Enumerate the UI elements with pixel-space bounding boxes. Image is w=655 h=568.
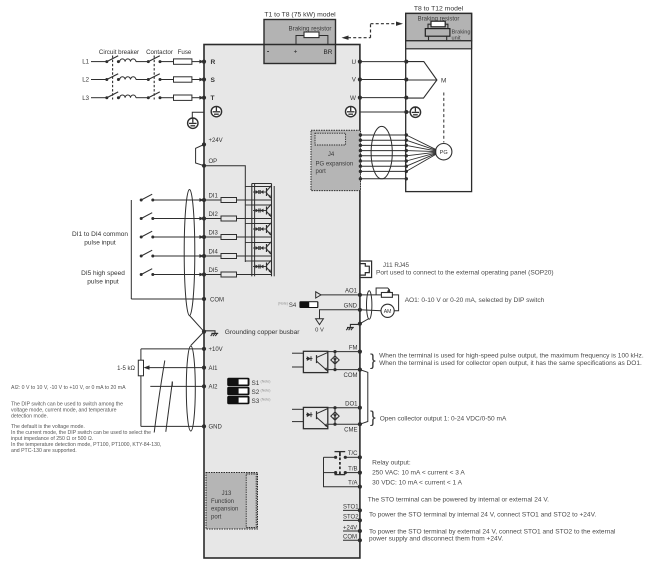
PG signal wire 5 [359, 154, 362, 157]
svg-text:R: R [211, 59, 216, 66]
wire fuse to terminal R [192, 61, 200, 63]
svg-text:port: port [211, 514, 222, 520]
svg-text:S4: S4 [289, 303, 297, 309]
twisted pair slash 1 [154, 361, 165, 433]
svg-text:Port used to connect to the ex: Port used to connect to the external ope… [376, 270, 554, 277]
svg-text:DI1 to DI4 common: DI1 to DI4 common [72, 231, 128, 238]
switch for DI5 [140, 273, 143, 276]
svg-text:The STO terminal can be powere: The STO terminal can be powered by inter… [368, 497, 549, 504]
svg-text:DI5: DI5 [209, 268, 219, 274]
terminal COM (STO) [343, 539, 360, 541]
wire V to motor [360, 79, 406, 81]
wire switch to terminal DI3 [153, 236, 200, 238]
AO shield drain to busbar [360, 319, 369, 324]
wire resistor to optocoupler DI3 [237, 236, 252, 238]
svg-text:Grounding copper busbar: Grounding copper busbar [225, 329, 301, 336]
wire coil to contactor L3 [136, 97, 148, 99]
svg-text:+10V: +10V [209, 347, 223, 353]
terminal DI2 [202, 216, 206, 220]
svg-text:(Note): (Note) [261, 389, 271, 393]
fuse L3 [174, 95, 192, 100]
svg-text:(Note): (Note) [261, 379, 271, 383]
twisted pair slash 2 [166, 382, 173, 432]
svg-text:Fuse: Fuse [178, 49, 192, 56]
inverter PE terminal (input side) [211, 106, 221, 116]
potentiometer 1-5 kOhm [140, 349, 142, 360]
svg-text:and PTC-130 are supported.: and PTC-130 are supported. [11, 448, 77, 454]
optocoupler output FM [303, 351, 327, 372]
braking resistor element [304, 32, 319, 38]
dashed connector arrow to T8-T12 module [371, 23, 397, 25]
relay contact T/C [345, 456, 360, 458]
svg-text:T: T [211, 95, 215, 102]
relay branch wires [324, 456, 336, 458]
svg-text:DI3: DI3 [209, 231, 219, 237]
svg-text:Function: Function [211, 499, 234, 505]
svg-text:COM: COM [343, 535, 357, 541]
PG signal wire 2 [359, 139, 362, 142]
svg-text:AO1: 0-10 V or 0-20 mA, select: AO1: 0-10 V or 0-20 mA, selected by DIP … [405, 297, 545, 304]
terminal S [202, 77, 206, 81]
svg-text:T/B: T/B [348, 466, 357, 472]
svg-text:DI4: DI4 [209, 250, 219, 256]
terminal DO1 [328, 407, 360, 409]
terminal CME [328, 423, 360, 425]
contactor pole L3 [147, 96, 150, 99]
encoder PG circle [436, 144, 452, 160]
connector J11 RJ45 [360, 261, 372, 278]
svg-text:AI2: 0 V to 10 V, -10 V to +10: AI2: 0 V to 10 V, -10 V to +10 V, or 0 m… [11, 385, 126, 391]
svg-text:S3: S3 [252, 398, 260, 405]
wire contactor to fuse L1 [160, 61, 174, 63]
terminal DI3 [202, 235, 206, 239]
encoder cable shield ellipse [371, 126, 392, 178]
terminal FM [328, 351, 360, 353]
DI common bus wire [130, 200, 132, 299]
svg-text:Relay output:: Relay output: [372, 459, 411, 466]
terminal strip band [406, 41, 472, 49]
contactor pole L1 [147, 60, 150, 63]
switch for DI4 [140, 255, 143, 258]
dashed connector vertical [370, 24, 372, 38]
reactor coil L3 [120, 95, 136, 98]
wire GND to ammeter [360, 310, 381, 311]
svg-text:(Note): (Note) [261, 398, 271, 402]
dashed connector arrow to T1-T8 braking resistor [348, 37, 371, 39]
svg-text:GND: GND [209, 425, 223, 431]
terminal DI4 [202, 254, 206, 258]
optocoupler DI3 [252, 223, 272, 225]
terminal R [202, 60, 206, 64]
PG signal wire 1 [359, 133, 362, 136]
external ammeter AM [381, 304, 394, 317]
svg-text:J4: J4 [328, 152, 335, 158]
svg-text:STO1: STO1 [343, 505, 359, 511]
relay common T/A [324, 457, 360, 486]
grounding copper busbar terminal [202, 330, 206, 334]
wire U to motor [360, 61, 406, 63]
DIP switch S2 [228, 387, 249, 394]
potentiometer wiper wire to AI1 [144, 365, 150, 369]
braking resistor wiring bracket [296, 36, 328, 45]
wire contactor to fuse L3 [160, 97, 174, 99]
wire buffer to AO1 [321, 294, 360, 296]
optocoupler DI2 [252, 204, 272, 206]
optocoupler DI5 [252, 260, 272, 262]
svg-text:DO1: DO1 [345, 401, 358, 407]
svg-text:OP: OP [209, 159, 218, 165]
terminal +10V [141, 348, 204, 350]
svg-text:AI2: AI2 [209, 385, 219, 391]
svg-text:STO2: STO2 [343, 515, 359, 521]
terminal AI1 [202, 366, 206, 370]
input resistor DI1 [204, 199, 221, 201]
svg-text:AO1: AO1 [345, 288, 358, 294]
svg-text:W: W [350, 95, 356, 102]
svg-text:1-5 kΩ: 1-5 kΩ [117, 366, 135, 372]
PG cable shield wire [359, 177, 362, 180]
svg-text:To power the STO terminal by e: To power the STO terminal by external 24… [369, 529, 616, 536]
grounding busbar terminal (right) [358, 322, 362, 326]
svg-text:S2: S2 [252, 389, 260, 396]
svg-text:}: } [370, 408, 376, 427]
wire coil to contactor L2 [136, 79, 148, 81]
svg-text:Circuit breaker: Circuit breaker [99, 49, 139, 56]
fuse L1 [174, 59, 192, 64]
braking resistor module box T1-T8 [264, 20, 336, 64]
svg-text:BR: BR [324, 49, 333, 56]
reactor coil L2 [120, 77, 136, 80]
reactor coil L1 [120, 59, 136, 62]
svg-text:T8 to T12 model: T8 to T12 model [414, 6, 464, 13]
contactor pole L2 [147, 78, 150, 81]
input resistor DI4 [204, 255, 221, 257]
input resistor DI3 [204, 236, 221, 238]
svg-text:T/C: T/C [348, 451, 358, 457]
optocoupler output DO1 [303, 407, 327, 428]
circuit breaker gang link [112, 56, 114, 100]
connector J13 function expansion port [206, 473, 258, 530]
wire fuse to terminal S [192, 79, 200, 81]
svg-text:PG: PG [440, 150, 448, 156]
jumper wire +24V to OP [196, 145, 204, 166]
braking unit box [428, 24, 431, 28]
svg-text:DI2: DI2 [209, 212, 219, 218]
optocoupler DI1 [252, 186, 272, 188]
connector J4 PG expansion port [311, 130, 361, 190]
svg-text:AI1: AI1 [209, 366, 219, 372]
svg-text:power supply and disconnect th: power supply and disconnect them from +2… [369, 536, 503, 543]
svg-text:To power the STO terminal by i: To power the STO terminal by internal 24… [369, 512, 596, 519]
svg-text:pulse input: pulse input [84, 240, 116, 247]
motor shaft dashed link [443, 93, 445, 143]
svg-text:J11 RJ45: J11 RJ45 [383, 262, 410, 269]
svg-text:J13: J13 [222, 491, 232, 497]
PG signal wire 6 [359, 159, 362, 162]
AO1 buffer amplifier [316, 292, 321, 298]
svg-text:U: U [351, 59, 356, 66]
svg-text:FM: FM [349, 345, 358, 351]
terminal STO2 (STO) [343, 519, 360, 521]
svg-text:250 VAC: 10 mA < current < 3 A: 250 VAC: 10 mA < current < 3 A [372, 470, 465, 477]
inverter main block [204, 45, 360, 559]
switch for DI3 [140, 236, 143, 239]
wire switch to terminal DI1 [153, 199, 200, 201]
wire resistor to optocoupler DI4 [237, 255, 252, 257]
terminal COM [328, 369, 360, 371]
terminal AI2 wire [150, 385, 204, 387]
DIP switch S3 [228, 396, 249, 403]
braking resistor element (T8-T12) [431, 21, 445, 27]
svg-text:When the terminal is used for: When the terminal is used for collector … [379, 360, 642, 367]
AO cable shield ellipse [367, 291, 372, 319]
svg-text:DI1: DI1 [209, 194, 219, 200]
terminal DI1 [202, 198, 206, 202]
optocoupler bank frame [251, 184, 253, 277]
DIP switch S1 [228, 378, 249, 385]
svg-text:30 VDC: 10 mA < current < 1 A: 30 VDC: 10 mA < current < 1 A [372, 479, 463, 486]
svg-text:S1: S1 [252, 380, 260, 387]
wire resistor to optocoupler DI2 [237, 218, 252, 220]
terminal DI5 [202, 272, 206, 276]
wire fuse to terminal T [192, 97, 200, 99]
0V reference triangle [316, 319, 324, 325]
circuit breaker pole L3 [105, 96, 108, 99]
PG signal wire 4 [359, 149, 362, 152]
svg-text:COM: COM [210, 297, 224, 303]
protection diode DO1 [334, 408, 336, 425]
wire resistor to optocoupler DI5 [237, 274, 252, 276]
switch for DI2 [140, 217, 143, 220]
PG signal wire 8 [359, 170, 362, 173]
svg-text:CME: CME [344, 428, 357, 434]
svg-text:DI5 high speed: DI5 high speed [81, 270, 125, 277]
svg-text:L3: L3 [82, 95, 89, 102]
svg-text:L1: L1 [82, 59, 89, 66]
AI cable shield ellipse [186, 346, 195, 431]
contactor gang link [153, 56, 155, 100]
optocoupler DI4 [252, 242, 272, 244]
svg-text:COM: COM [344, 373, 358, 379]
circuit breaker pole L1 [105, 60, 108, 63]
wire PE to motor frame ground [360, 111, 406, 113]
svg-text:T1 to T8 (75 kW) model: T1 to T8 (75 kW) model [264, 12, 336, 19]
external rheostat load on AO1 [360, 294, 382, 296]
svg-text:S: S [211, 77, 216, 84]
braking unit legs [428, 36, 430, 47]
svg-text:}: } [370, 351, 376, 370]
svg-text:When the terminal is used for: When the terminal is used for high-speed… [379, 352, 644, 359]
terminal T [202, 96, 206, 100]
svg-text:0 V: 0 V [315, 328, 324, 334]
svg-text:T/A: T/A [348, 480, 357, 486]
terminal +24V (STO) [343, 530, 360, 532]
wire to external ground [192, 112, 204, 118]
svg-text:expansion: expansion [211, 507, 238, 513]
input resistor DI5 [204, 274, 221, 276]
svg-text:+: + [294, 49, 298, 56]
wire W to motor [360, 97, 406, 99]
svg-text:Open collector output 1: 0-24: Open collector output 1: 0-24 VDC/0-50 m… [380, 415, 507, 422]
wire coil to contactor L1 [136, 61, 148, 63]
svg-text:+24V: +24V [343, 525, 357, 531]
internal GND wire and 0V [320, 310, 360, 319]
wire switch to terminal DI5 [153, 274, 200, 276]
circuit breaker pole L2 [105, 78, 108, 81]
terminal GND (analog) [141, 425, 204, 427]
wire COM to CME common link [360, 370, 368, 425]
motor frame ground symbol [410, 107, 420, 117]
input resistor DI2 [204, 218, 221, 220]
braking module box T8-T12 [406, 13, 472, 40]
svg-text:+24V: +24V [209, 138, 223, 144]
relay contact T/B [345, 472, 360, 474]
terminal COM [202, 297, 206, 301]
shield drain wires to busbar [190, 316, 205, 332]
protection diode FM [334, 352, 336, 370]
PG signal wire 7 [359, 165, 362, 168]
svg-text:L2: L2 [82, 77, 89, 84]
wire resistor to optocoupler DI1 [237, 199, 252, 201]
wire contactor to fuse L2 [160, 79, 174, 81]
svg-text:PG expansion: PG expansion [316, 162, 354, 168]
wire COM to bus [131, 298, 204, 300]
top edge of block over braking box [264, 44, 336, 46]
OP internal rail [204, 166, 245, 262]
svg-text:port: port [316, 169, 327, 175]
fuse L2 [174, 77, 192, 82]
relay armature [335, 451, 346, 453]
wire switch to terminal DI4 [153, 255, 200, 257]
external PE ground electrode [188, 118, 198, 128]
svg-text:detection mode.: detection mode. [11, 413, 48, 419]
switch for DI1 [140, 199, 143, 202]
motor M winding symbol [406, 62, 437, 99]
terminal STO1 (STO) [343, 509, 360, 511]
PG signal wire 3 [359, 144, 362, 147]
DI cable shield ellipse [184, 190, 195, 316]
svg-text:Contactor: Contactor [146, 49, 173, 56]
svg-text:GND: GND [344, 303, 358, 309]
inverter PE terminal (output side) [346, 106, 356, 116]
svg-text:M: M [441, 78, 446, 85]
motor/braking outer enclosure [406, 13, 472, 191]
wire switch to terminal DI2 [153, 218, 200, 220]
svg-text:pulse input: pulse input [87, 279, 119, 286]
svg-text:AM: AM [384, 309, 392, 315]
svg-text:(Note): (Note) [278, 302, 288, 306]
